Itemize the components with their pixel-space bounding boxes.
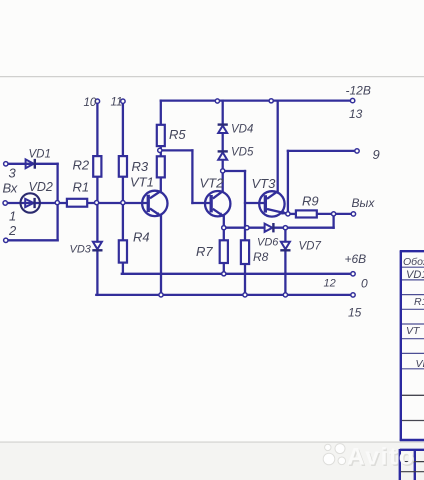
- svg-text:R4: R4: [133, 230, 150, 245]
- svg-text:VD3: VD3: [70, 244, 92, 256]
- svg-text:VT1: VT1: [130, 175, 154, 190]
- svg-text:Вых: Вых: [352, 196, 376, 210]
- svg-text:Обозн: Обозн: [403, 256, 424, 268]
- svg-text:VD: VD: [416, 358, 424, 370]
- svg-text:R1: R1: [414, 296, 424, 308]
- svg-text:VD6: VD6: [257, 237, 279, 249]
- svg-text:3: 3: [9, 166, 17, 181]
- svg-text:VT2: VT2: [200, 176, 225, 191]
- svg-text:R7: R7: [196, 244, 213, 259]
- svg-text:R1: R1: [73, 180, 90, 195]
- svg-text:1: 1: [9, 209, 16, 224]
- svg-text:9: 9: [373, 147, 380, 162]
- svg-text:15: 15: [348, 306, 362, 320]
- svg-text:13: 13: [349, 107, 363, 121]
- svg-text:VD5: VD5: [231, 147, 254, 159]
- svg-text:VD4: VD4: [231, 124, 253, 136]
- svg-text:10: 10: [84, 97, 97, 109]
- svg-text:VD1: VD1: [406, 269, 424, 281]
- svg-text:R3: R3: [132, 159, 149, 174]
- svg-text:VD1: VD1: [29, 149, 51, 161]
- svg-text:Avito: Avito: [347, 444, 415, 471]
- svg-text:0: 0: [361, 277, 368, 291]
- svg-text:R9: R9: [302, 194, 319, 209]
- svg-text:R2: R2: [73, 158, 90, 173]
- svg-text:VT3: VT3: [252, 176, 277, 191]
- svg-text:VD2: VD2: [29, 180, 53, 194]
- svg-text:Вх: Вх: [3, 181, 18, 196]
- svg-text:-12В: -12В: [346, 84, 371, 98]
- svg-text:R8: R8: [253, 250, 269, 264]
- svg-text:2: 2: [8, 223, 17, 238]
- svg-text:R5: R5: [169, 127, 186, 142]
- svg-text:VT: VT: [406, 325, 421, 337]
- svg-text:12: 12: [324, 278, 336, 290]
- svg-text:11: 11: [111, 97, 123, 109]
- svg-text:+6В: +6В: [345, 252, 367, 266]
- svg-text:VD7: VD7: [299, 241, 322, 253]
